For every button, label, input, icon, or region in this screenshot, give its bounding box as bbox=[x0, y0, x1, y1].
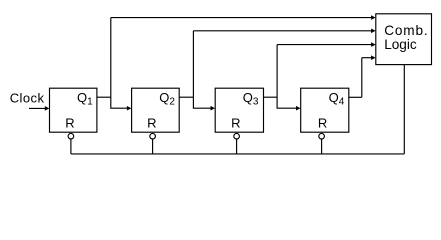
wire Q1 riser and jog to FF2 bbox=[111, 18, 128, 109]
flip-flop FF3 (Q3) bbox=[215, 88, 263, 132]
svg-text:Q2: Q2 bbox=[159, 90, 175, 108]
arrowhead into FF3 bbox=[211, 106, 216, 111]
wire Q4 riser bbox=[361, 58, 363, 98]
flip-flop FF4 (Q4) bbox=[301, 88, 349, 132]
svg-text:R: R bbox=[318, 116, 327, 131]
wire R1 stub bbox=[70, 139, 72, 154]
svg-text:R: R bbox=[147, 116, 156, 131]
wire Q1 output stub bbox=[97, 96, 111, 98]
wire net Q1 top rail bbox=[111, 17, 372, 19]
wire net Q2 rail bbox=[193, 30, 371, 32]
bubble R3 active-low bbox=[234, 133, 240, 139]
svg-text:Q4: Q4 bbox=[329, 90, 345, 108]
svg-text:R: R bbox=[231, 116, 240, 131]
arrowhead rail3 into comb logic bbox=[371, 42, 376, 47]
arrowhead rail4 into comb logic bbox=[371, 55, 376, 60]
svg-text:Q1: Q1 bbox=[77, 90, 93, 108]
svg-text:Q3: Q3 bbox=[243, 90, 259, 108]
wire R3 stub bbox=[236, 139, 238, 154]
wire comb logic output drop bbox=[403, 65, 405, 154]
wire reset feedback rail bbox=[71, 153, 404, 155]
bubble R1 active-low bbox=[68, 133, 74, 139]
arrowhead into FF2 bbox=[127, 106, 131, 111]
wire R2 stub bbox=[152, 139, 154, 154]
svg-text:R: R bbox=[65, 116, 74, 131]
wire Q4 output stub bbox=[349, 96, 362, 98]
flip-flop FF2 (Q2) bbox=[132, 88, 180, 132]
wire Q3 output stub bbox=[264, 96, 278, 98]
svg-text:Logic: Logic bbox=[384, 37, 417, 52]
arrowhead rail1 into comb logic bbox=[371, 15, 376, 20]
wire Q2 output stub bbox=[179, 96, 193, 98]
wire Q3 riser and jog to FF4 bbox=[277, 45, 296, 109]
arrowhead clock into FF1 bbox=[45, 106, 50, 111]
wire clock input bbox=[29, 107, 46, 109]
wire net Q4 rail bbox=[362, 57, 372, 59]
bubble R2 active-low bbox=[150, 133, 156, 139]
wire net Q3 rail bbox=[277, 44, 371, 46]
flip-flop FF1 (Q1) bbox=[50, 88, 97, 132]
svg-text:Comb.: Comb. bbox=[384, 23, 428, 38]
arrowhead into FF4 bbox=[296, 106, 301, 111]
wire R4 stub bbox=[321, 139, 323, 154]
arrowhead rail2 into comb logic bbox=[371, 29, 376, 34]
block U1 Comb. Logic bbox=[376, 14, 432, 65]
svg-text:Clock: Clock bbox=[10, 90, 45, 105]
wire Q2 riser and jog to FF3 bbox=[193, 31, 211, 108]
bubble R4 active-low bbox=[319, 133, 325, 139]
